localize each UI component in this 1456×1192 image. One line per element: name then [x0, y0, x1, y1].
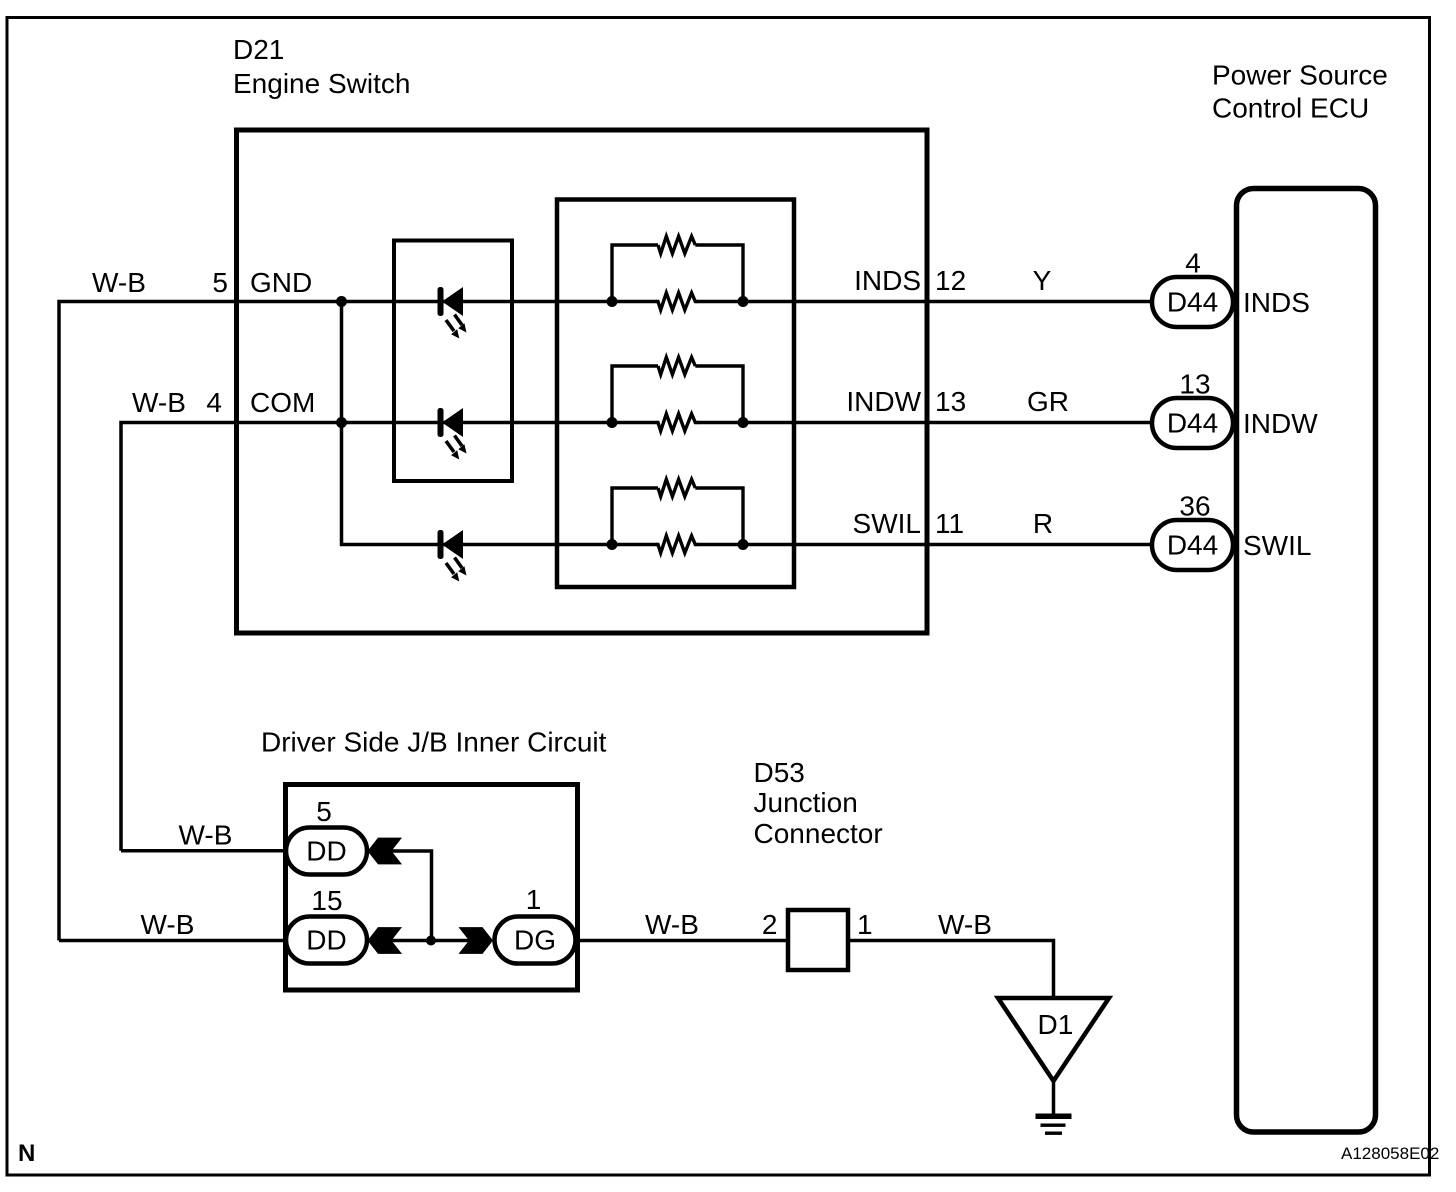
svg-text:GND: GND [250, 267, 312, 298]
wire D53 to ground drop [848, 941, 1054, 1000]
svg-text:2: 2 [762, 909, 778, 940]
svg-text:Engine Switch: Engine Switch [233, 68, 410, 99]
svg-text:W-B: W-B [179, 820, 233, 851]
ground symbol [1036, 1114, 1072, 1120]
svg-text:5: 5 [212, 267, 228, 298]
svg-text:DG: DG [514, 925, 556, 956]
connector D44 pin4 INDS [1152, 277, 1233, 327]
wire D1 triangle to ground symbol [1052, 1080, 1056, 1116]
resistor pair 1 [607, 236, 749, 310]
svg-text:1: 1 [857, 909, 873, 940]
connector D44 pin13 INDW [1152, 398, 1233, 448]
svg-text:W-B: W-B [141, 909, 195, 940]
svg-text:A128058E02: A128058E02 [1341, 1144, 1439, 1163]
svg-text:GR: GR [1027, 386, 1069, 417]
svg-text:Power Source: Power Source [1212, 60, 1388, 91]
Driver Side J/B box [286, 785, 578, 991]
arrow into DD5 [368, 838, 403, 865]
J/B terminal DG pin1 [495, 917, 576, 964]
svg-text:R: R [1033, 508, 1053, 539]
svg-text:SWIL: SWIL [853, 508, 921, 539]
resistor network box [557, 200, 794, 588]
svg-text:W-B: W-B [938, 909, 992, 940]
svg-text:INDS: INDS [854, 265, 921, 296]
LED inner box [394, 241, 512, 482]
svg-text:D21: D21 [233, 34, 284, 65]
wire COM row (W-B, pin4 to INDW) [121, 423, 657, 851]
svg-text:W-B: W-B [92, 267, 146, 298]
svg-text:36: 36 [1179, 491, 1210, 522]
J/B terminal DD pin5 [286, 828, 367, 875]
svg-text:5: 5 [316, 796, 332, 827]
Power Source Control ECU box [1237, 189, 1376, 1133]
wire W-B into DD pin5 [121, 849, 287, 853]
svg-text:W-B: W-B [132, 387, 186, 418]
wire from DD15 arrow through junction to DG arrow [390, 939, 470, 943]
svg-text:1: 1 [526, 884, 542, 915]
svg-text:W-B: W-B [645, 909, 699, 940]
svg-text:DD: DD [306, 925, 346, 956]
svg-text:Connector: Connector [754, 818, 883, 849]
LED 3 (SWIL row) [438, 530, 467, 582]
connector D44 pin36 SWIL [1152, 520, 1233, 570]
J/B terminal DD pin15 [286, 917, 367, 964]
svg-text:Junction: Junction [754, 787, 858, 818]
D53 junction connector square [788, 910, 848, 970]
svg-text:DD: DD [306, 836, 346, 867]
svg-text:Driver Side J/B Inner Circuit: Driver Side J/B Inner Circuit [261, 727, 607, 758]
svg-text:11: 11 [935, 508, 964, 539]
wire GND row (W-B, pin5 to INDS) [59, 302, 657, 941]
svg-text:12: 12 [935, 265, 966, 296]
svg-text:4: 4 [1185, 248, 1201, 279]
svg-text:13: 13 [935, 386, 966, 417]
junction dot GND/branch [336, 296, 347, 307]
svg-text:COM: COM [250, 387, 315, 418]
wire DG to D53 junction connector [573, 939, 788, 943]
LED 1 (GND row) [438, 287, 467, 339]
svg-text:15: 15 [311, 885, 342, 916]
svg-text:SWIL: SWIL [1243, 530, 1311, 561]
svg-text:Control ECU: Control ECU [1212, 93, 1369, 124]
resistor pair 3 [607, 479, 749, 553]
svg-text:INDS: INDS [1243, 287, 1310, 318]
wire from DD5 arrow to junction [390, 851, 432, 941]
wire W-B into DD pin15 [59, 939, 287, 943]
svg-text:INDW: INDW [846, 386, 921, 417]
wire SWIL row branch vertical [342, 302, 658, 545]
svg-text:13: 13 [1179, 369, 1210, 400]
engine switch D21 box [237, 130, 928, 633]
svg-text:Y: Y [1033, 265, 1052, 296]
svg-text:D53: D53 [754, 757, 805, 788]
svg-text:INDW: INDW [1243, 408, 1318, 439]
resistor pair 2 [607, 357, 749, 431]
junction dot in J/B [426, 936, 436, 946]
arrow into DD15 [368, 927, 403, 954]
svg-text:D1: D1 [1038, 1009, 1074, 1040]
diode D1 triangle [998, 998, 1109, 1081]
junction dot COM/branch [336, 417, 347, 428]
svg-text:N: N [18, 1140, 35, 1167]
arrow into DG [459, 927, 494, 954]
svg-text:4: 4 [206, 387, 222, 418]
LED 2 (COM row) [438, 408, 467, 460]
